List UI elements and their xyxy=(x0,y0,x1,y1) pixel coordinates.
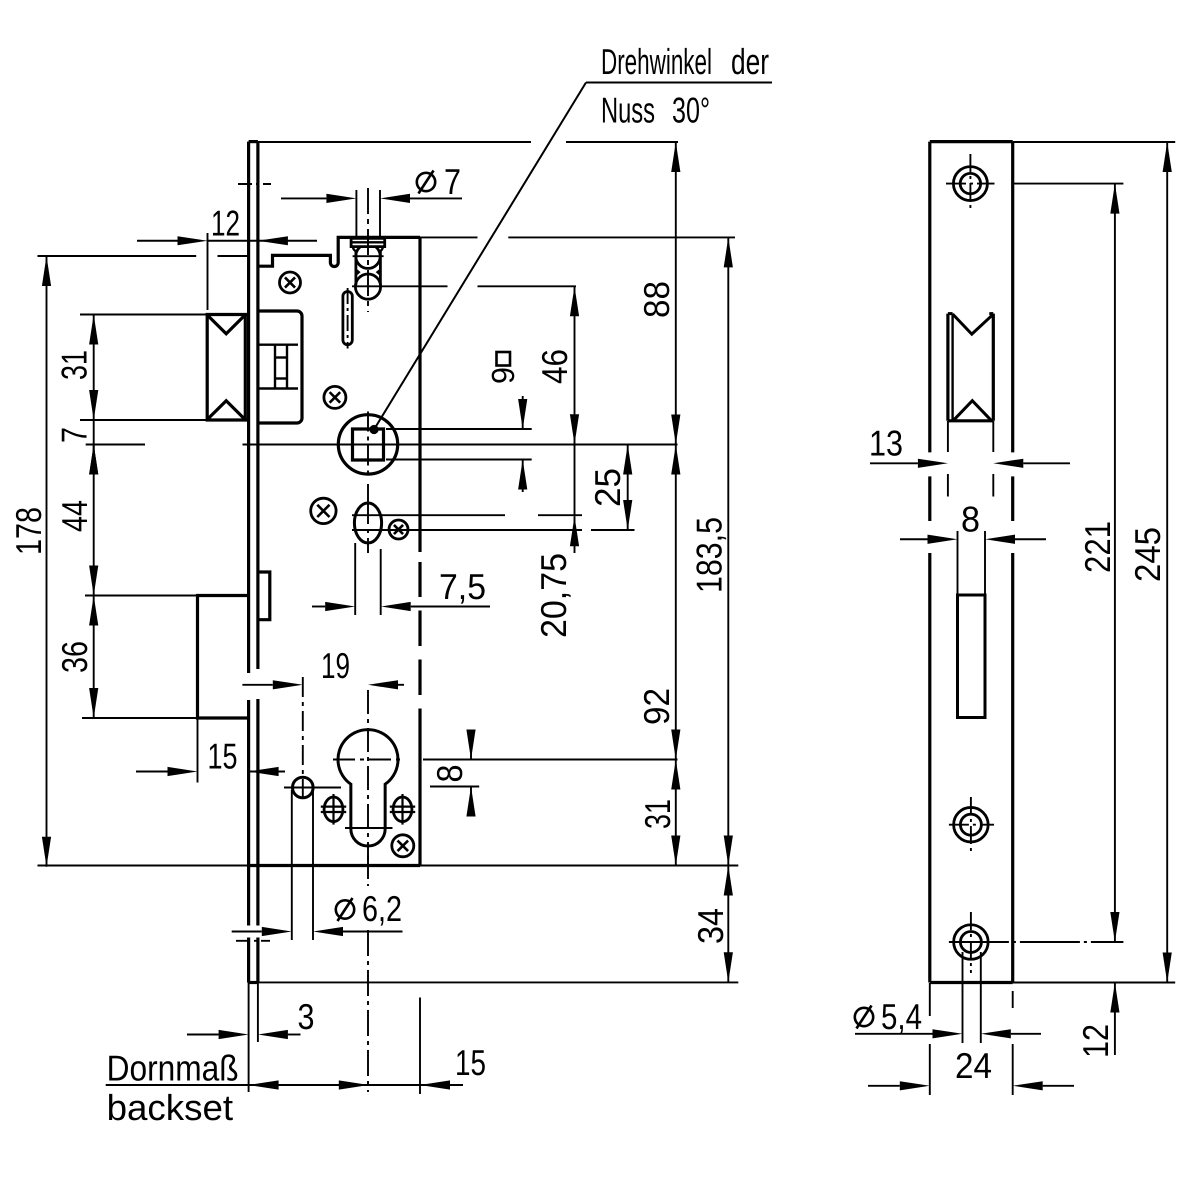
svg-text:36: 36 xyxy=(54,641,95,673)
right view faceplate top edge xyxy=(930,140,1013,143)
backset right arrow xyxy=(339,1080,369,1089)
upper roller centerline tick xyxy=(353,255,384,257)
upper roller circle xyxy=(356,244,380,268)
dimension 44 xyxy=(93,445,95,596)
dimension diameter 5,4 xyxy=(855,1033,933,1035)
right view top hole centerline extension xyxy=(1013,183,1124,185)
extension lines deadbolt 36 xyxy=(85,595,198,597)
cylinder vertical centerline xyxy=(367,690,369,860)
svg-text:8: 8 xyxy=(429,765,470,783)
extension line y=444.5 follower axis xyxy=(86,444,145,446)
dimension 8 (deadbolt opening) xyxy=(900,538,928,540)
lock case right edge xyxy=(418,237,421,552)
faceplate front edge line xyxy=(247,142,250,673)
svg-text:13: 13 xyxy=(869,423,903,464)
latch opening bottom V xyxy=(953,401,992,421)
guide slider left edge xyxy=(274,345,276,389)
follower circle xyxy=(338,415,397,474)
dim text dia 6,2 xyxy=(336,900,354,918)
svg-text:3: 3 xyxy=(298,996,315,1037)
extension line y=237.4 (case top) xyxy=(420,236,478,238)
svg-text:44: 44 xyxy=(54,500,95,532)
svg-text:9: 9 xyxy=(485,367,521,384)
latch bolt right edge xyxy=(244,315,247,421)
follower guide block xyxy=(258,311,302,423)
roller 7mm extensions xyxy=(355,190,357,236)
24 extensions xyxy=(929,983,931,1016)
slot extensions y=530 (25) xyxy=(352,529,582,531)
svg-text:30°: 30° xyxy=(672,90,710,131)
15 right arrow xyxy=(420,1080,450,1089)
screw symbol mid-upper xyxy=(324,386,346,408)
svg-text:15: 15 xyxy=(208,736,238,777)
svg-text:15: 15 xyxy=(455,1042,486,1083)
dimension 15 (deadbolt throw) xyxy=(136,771,168,773)
dimension square 9 (follower) xyxy=(522,396,524,429)
roller wedge right xyxy=(376,268,381,276)
dimension 46 xyxy=(574,286,576,444)
6.2 hole width extensions xyxy=(291,790,293,940)
extension line y=865.5 (case bottom) xyxy=(38,865,249,867)
roller wedge left xyxy=(356,268,361,276)
extension line y=256 (178 top) xyxy=(38,255,197,257)
dimension 178 xyxy=(46,256,48,867)
follower square 9mm extensions xyxy=(386,428,532,430)
deadbolt guide block behind faceplate xyxy=(258,572,270,620)
svg-text:12: 12 xyxy=(211,203,240,244)
lock case bottom edge xyxy=(249,864,420,867)
dimension 92 xyxy=(675,445,677,760)
hole axis extension y=786.5 xyxy=(430,786,479,788)
leader underline xyxy=(586,82,772,84)
dimension 31 (cylinder axis to case bottom) xyxy=(675,760,677,866)
right view middle screw hole xyxy=(954,807,989,842)
backset extensions at bottom xyxy=(419,998,421,1095)
follower vertical centerline xyxy=(367,412,369,478)
slotted hole below follower xyxy=(354,503,381,543)
dimension 25 xyxy=(627,445,629,531)
roller housing left side xyxy=(354,251,357,285)
screw symbol at slot xyxy=(389,520,408,539)
roller pin head flange xyxy=(351,238,385,246)
faceplate top edge xyxy=(249,140,258,143)
dimension 31 (latch height) xyxy=(93,315,95,421)
svg-text:46: 46 xyxy=(534,349,575,384)
latch opening 13 extensions xyxy=(947,421,949,452)
dimension 34 xyxy=(727,866,729,983)
dim text dia 5,4 xyxy=(855,1008,873,1026)
leader line to follower xyxy=(369,425,378,434)
svg-text:34: 34 xyxy=(690,908,731,944)
svg-text:92: 92 xyxy=(636,688,677,725)
right view top edge extension xyxy=(1013,141,1175,143)
faceplate back edge line xyxy=(256,142,259,669)
6.2mm fixing hole xyxy=(293,777,314,798)
dimension 19 xyxy=(242,684,272,686)
dimension 183,5 xyxy=(727,237,729,865)
right view bottom screw hole xyxy=(954,925,989,960)
bottom hole 5,4 extensions xyxy=(962,952,964,1043)
dimension 36 xyxy=(93,596,95,719)
dimension 7 xyxy=(93,420,95,474)
svg-text:221: 221 xyxy=(1077,521,1118,573)
svg-text:7,5: 7,5 xyxy=(439,566,486,607)
euro profile cylinder hole xyxy=(338,730,398,846)
dimension line backset row xyxy=(106,1084,463,1086)
right view bottom hole centerline + extension xyxy=(949,941,1124,943)
roller pin head inner line xyxy=(351,241,385,243)
latch bolt lower V chamfer xyxy=(209,401,244,419)
cylinder axis extension y=759.5 xyxy=(423,759,678,761)
dimension 12 (latch protrusion) xyxy=(137,240,178,242)
extension lines latch 31 xyxy=(80,314,207,316)
roller pin vertical centerline xyxy=(367,188,369,312)
latch opening bottom edge xyxy=(948,419,993,422)
dim text dia 7 xyxy=(417,173,435,191)
cylinder screw thread hole left xyxy=(324,797,343,822)
svg-text:6,2: 6,2 xyxy=(362,888,402,929)
lock case top edge with spring hook notch xyxy=(258,237,420,266)
guide slider right edge xyxy=(286,345,288,389)
dimension 12 (bottom hole) xyxy=(1114,983,1116,1056)
svg-text:25: 25 xyxy=(587,468,628,507)
dimension 24 (faceplate width) xyxy=(868,1085,900,1087)
svg-text:7: 7 xyxy=(54,427,95,443)
backset left arrow xyxy=(249,1080,279,1089)
dimension 13 (latch opening) xyxy=(870,462,918,464)
svg-text:31: 31 xyxy=(637,799,678,829)
dimension 7,5 (slot width) xyxy=(312,606,325,608)
slot centerline xyxy=(367,484,369,553)
top screw hole centerline tick on faceplate xyxy=(238,183,271,185)
svg-text:8: 8 xyxy=(961,499,980,540)
right view top screw hole xyxy=(953,167,987,201)
svg-text:Dornmaß: Dornmaß xyxy=(107,1048,239,1089)
6.2mm hole horizontal centerline xyxy=(284,787,341,789)
screw symbol middle-left xyxy=(311,498,336,523)
follower square hole 9mm xyxy=(353,429,384,460)
guide slider tick upper xyxy=(275,356,287,358)
roller pin neck curl right xyxy=(380,247,383,251)
svg-text:12: 12 xyxy=(1075,1024,1116,1058)
deadbolt opening 8 extensions xyxy=(957,531,959,594)
bottom screw hole centerline tick on faceplate xyxy=(236,940,270,942)
extension line y=286.3 (roller center) xyxy=(352,285,448,287)
guide block inner line upper xyxy=(259,344,298,346)
dimension 245 xyxy=(1166,142,1168,983)
screw symbol upper xyxy=(280,272,301,293)
svg-text:31: 31 xyxy=(54,350,95,380)
slot extensions y=515.2 (20,75) xyxy=(352,514,505,516)
latch bolt outline xyxy=(207,315,248,421)
screw symbol lower xyxy=(392,835,414,857)
roller pin neck curl left xyxy=(353,247,356,251)
svg-text:245: 245 xyxy=(1127,527,1168,582)
svg-text:20,75: 20,75 xyxy=(533,553,574,638)
faceplate bottom edge xyxy=(249,981,258,984)
svg-text:178: 178 xyxy=(8,507,49,555)
dimension 8 (cylinder to hole) xyxy=(470,732,472,760)
svg-text:Drehwinkel: Drehwinkel xyxy=(601,41,712,82)
spring pin centerline xyxy=(347,288,349,349)
dimension 20,75 xyxy=(574,444,576,516)
guide block inner line lower xyxy=(259,387,298,389)
cylinder neck tick line xyxy=(345,827,393,829)
extension line y=982.4 (faceplate bottom) xyxy=(249,981,739,983)
deadbolt edge extension down xyxy=(197,718,199,783)
guide slider tick lower xyxy=(275,377,287,379)
svg-text:backset: backset xyxy=(107,1087,234,1128)
latch tip extension for 12 xyxy=(207,233,209,310)
svg-text:88: 88 xyxy=(636,281,677,318)
spring pin xyxy=(343,292,352,345)
dimension 88 xyxy=(675,142,677,445)
roller housing right side xyxy=(379,251,382,285)
svg-text:24: 24 xyxy=(955,1045,992,1086)
slot width extensions 7,5 xyxy=(354,543,356,615)
svg-text:19: 19 xyxy=(321,645,350,686)
extension line y=142 top xyxy=(258,141,531,143)
svg-text:der: der xyxy=(731,41,769,82)
deadbolt head outline xyxy=(198,596,249,719)
cylinder horizontal centerline xyxy=(333,759,403,761)
right view deadbolt opening xyxy=(958,595,986,718)
svg-text:Nuss: Nuss xyxy=(601,90,655,131)
dimension diameter 7 (roller) xyxy=(281,197,326,199)
right view latch opening xyxy=(946,314,949,421)
svg-text:7: 7 xyxy=(444,161,461,202)
svg-text:183,5: 183,5 xyxy=(689,517,730,593)
latch opening top V xyxy=(953,314,994,334)
right view bottom edge extension xyxy=(1013,982,1175,984)
right view faceplate right edge xyxy=(1011,142,1014,453)
6.2mm hole vertical centerline xyxy=(302,677,304,803)
cylinder screw thread hole right xyxy=(393,797,412,822)
right view faceplate bottom edge xyxy=(930,981,1013,984)
latch bolt upper V chamfer xyxy=(209,316,244,334)
dimension 221 xyxy=(1114,184,1116,942)
svg-text:5,4: 5,4 xyxy=(881,996,922,1037)
dimension diameter 6,2 xyxy=(232,931,262,933)
right view faceplate left edge xyxy=(928,142,931,453)
lower roller circle xyxy=(355,274,380,299)
dimension 3 (faceplate thickness) xyxy=(187,1034,219,1036)
